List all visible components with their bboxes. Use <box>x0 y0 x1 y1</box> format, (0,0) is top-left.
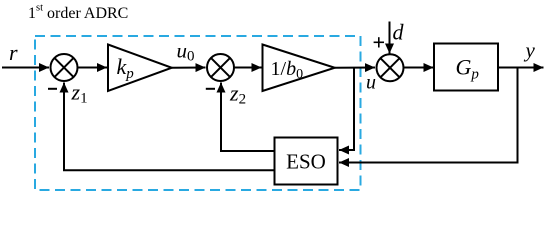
svg-text:r: r <box>9 40 18 65</box>
svg-text:u0: u0 <box>177 39 195 65</box>
svg-text:z2: z2 <box>229 81 246 108</box>
plant block Gp <box>434 44 498 91</box>
wire r to summing junction S1 <box>2 67 49 69</box>
svg-text:z1: z1 <box>71 80 88 107</box>
minus sign at S2 <box>206 88 215 90</box>
svg-text:ESO: ESO <box>286 149 326 173</box>
wire d into S3 <box>389 22 391 54</box>
summing junction S1 <box>51 54 78 81</box>
wire S1 to gain kp <box>78 67 108 69</box>
summing junction S3 <box>377 54 404 81</box>
wire S2 to gain 1/b0 <box>234 67 262 69</box>
svg-text:1/b0: 1/b0 <box>271 58 304 82</box>
svg-text:kp: kp <box>117 54 135 82</box>
svg-text:d: d <box>393 20 405 45</box>
dashed ADRC boundary box <box>35 36 361 190</box>
gain block 1/b0 (triangle) <box>263 45 335 92</box>
wire ESO output z2 up to S2 <box>221 83 275 152</box>
svg-text:y: y <box>524 38 536 62</box>
wire kp to summing junction S2 <box>172 67 206 69</box>
wire 1/b0 to summing junction S3 <box>335 67 375 69</box>
ESO block <box>275 138 338 185</box>
plus sign at S3 <box>374 37 384 47</box>
wire ESO output z1 up to S1 <box>64 83 275 171</box>
wire u branch down to ESO <box>339 68 354 151</box>
svg-text:Gp: Gp <box>456 55 480 83</box>
summing junction S2 <box>207 54 234 81</box>
gain block kp (triangle) <box>108 45 172 92</box>
svg-text:u: u <box>366 72 376 94</box>
svg-text:1st order ADRC: 1st order ADRC <box>28 3 128 23</box>
wire S3 to plant Gp <box>404 67 434 69</box>
wire Gp to output y <box>498 67 544 69</box>
minus sign at S1 <box>48 88 57 90</box>
wire y feedback down and into ESO <box>339 68 518 163</box>
